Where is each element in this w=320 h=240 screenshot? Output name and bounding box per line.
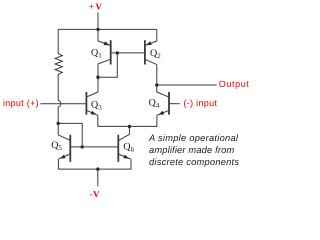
junction node tail <box>128 125 131 128</box>
svg-text:Q4: Q4 <box>149 97 160 109</box>
transistor Q1 base bar <box>110 40 112 64</box>
wire Q1 collector to Q3 collector <box>97 64 99 92</box>
transistor Q1 collector diagonal <box>98 59 110 64</box>
wire -V stub <box>97 169 99 186</box>
svg-text:(-) input: (-) input <box>184 98 218 108</box>
svg-text:discrete components: discrete components <box>149 157 239 167</box>
wire Q5 base-collector tie <box>58 123 82 146</box>
wire bottom rail -V <box>58 159 131 169</box>
svg-text:A simple operational: A simple operational <box>148 133 239 143</box>
wire Q1 base-collector tie <box>98 53 117 77</box>
transistor Q1 emitter diagonal <box>98 41 110 45</box>
svg-text:amplifier made from: amplifier made from <box>149 145 234 155</box>
junction node Q5/Q6 base <box>81 145 84 148</box>
wire Q6 collector to tail <box>128 126 130 134</box>
transistor Q5 base bar <box>69 135 71 162</box>
svg-text:Output: Output <box>219 79 249 89</box>
junction node +V rail <box>96 28 99 31</box>
wire resistor to Q5 collector <box>57 107 59 135</box>
svg-text:Q3: Q3 <box>91 100 102 112</box>
svg-text:Q1: Q1 <box>91 47 102 59</box>
transistor Q3 emitter diagonal <box>86 110 97 115</box>
arrow Q1 emitter (PNP, into bar) <box>104 41 110 45</box>
resistor R1 <box>55 29 62 100</box>
arrow Q5 emitter (NPN, outward) <box>60 155 66 159</box>
transistor Q3 collector diagonal <box>86 92 98 97</box>
transistor Q5 emitter diagonal <box>58 154 70 159</box>
arrow Q6 emitter (NPN, outward) <box>123 155 129 159</box>
wire hop over input line <box>58 101 61 107</box>
transistor Q2 base bar <box>144 40 146 64</box>
wire Q2 emitter lead <box>156 29 158 41</box>
transistor Q6 emitter diagonal <box>118 154 130 159</box>
transistor Q4 collector diagonal <box>157 92 169 97</box>
transistor Q2 emitter diagonal <box>145 41 157 45</box>
svg-text:Q2: Q2 <box>150 48 161 60</box>
wire output line <box>157 84 217 86</box>
transistor Q6 base bar <box>117 135 119 162</box>
svg-text:Q5: Q5 <box>51 140 62 152</box>
wire emitter tail line <box>98 115 157 126</box>
wire Q2 collector to output node <box>156 65 158 92</box>
svg-text:+V: +V <box>89 2 103 12</box>
wire (-) input stub <box>169 103 180 105</box>
transistor Q3 base bar <box>85 92 87 115</box>
junction node -V rail <box>96 167 99 170</box>
svg-text:-V: -V <box>90 189 101 199</box>
transistor Q4 base bar <box>168 92 170 115</box>
transistor Q4 emitter diagonal <box>157 110 169 115</box>
wire input (+) line <box>40 103 86 105</box>
junction node output <box>155 83 158 86</box>
junction node Q1 base <box>116 51 119 54</box>
arrow Q3 emitter (NPN, outward) <box>91 111 97 115</box>
wire Q1-Q2 base line <box>111 52 145 54</box>
arrow Q4 emitter (NPN, outward) <box>158 111 164 115</box>
wire Q5-Q6 base line <box>70 146 118 148</box>
wire top rail +V <box>58 28 157 30</box>
arrow Q2 emitter (PNP, into bar) <box>146 41 152 45</box>
svg-text:input (+): input (+) <box>3 98 39 108</box>
junction node Q1/Q3 collectors <box>96 76 99 79</box>
junction node Q5 collector <box>57 122 60 125</box>
transistor Q5 collector diagonal <box>58 135 70 140</box>
transistor Q6 collector diagonal <box>118 134 129 140</box>
svg-text:Q6: Q6 <box>123 141 134 153</box>
wire +V stub / Q1 emitter lead <box>97 12 99 41</box>
transistor Q2 collector diagonal <box>145 59 157 64</box>
